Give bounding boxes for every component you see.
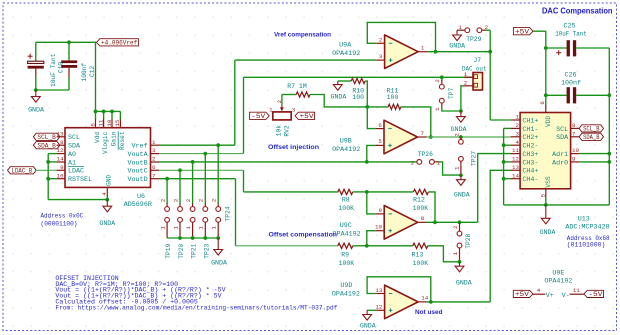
svg-text:11: 11 — [573, 287, 580, 294]
label +5V (top) — [513, 28, 533, 35]
pin 2 U9A — [376, 42, 384, 44]
pin 14 U6 A1 — [57, 161, 65, 163]
label -5V (RV2) — [250, 112, 270, 119]
svg-text:CH4-: CH4- — [522, 176, 538, 184]
svg-text:VoutC: VoutC — [128, 168, 148, 176]
svg-text:CH4+: CH4+ — [522, 168, 538, 176]
svg-text:+5V: +5V — [300, 113, 314, 120]
wire TP ground rail — [167, 237, 218, 239]
svg-text:1: 1 — [172, 226, 179, 230]
U6 top pins tie rail — [96, 110, 121, 112]
label +5V (U9E) — [513, 290, 533, 297]
svg-text:TP24: TP24 — [224, 206, 231, 221]
svg-text:2: 2 — [516, 122, 520, 129]
svg-text:4: 4 — [537, 287, 541, 294]
wire LDAC_B to pin 9 — [36, 169, 57, 171]
svg-text:3: 3 — [379, 53, 383, 60]
svg-text:12: 12 — [375, 304, 382, 311]
wire U6 GND rail — [48, 199, 107, 201]
test point TP23 — [204, 154, 206, 204]
svg-text:V-: V- — [562, 292, 570, 300]
svg-text:100K: 100K — [338, 205, 354, 212]
pin 6 U9B — [376, 128, 384, 130]
svg-text:14: 14 — [421, 295, 428, 302]
pin 6 U13 VDD — [545, 105, 547, 113]
ground GNDA (TP26/27) — [460, 175, 462, 180]
wire U9A out down to CH1+ — [489, 30, 491, 120]
pin 11 U9E — [570, 293, 584, 295]
svg-text:2: 2 — [453, 133, 460, 137]
wire cap bottom rail — [36, 89, 69, 91]
svg-text:1: 1 — [437, 159, 441, 166]
svg-text:SCL: SCL — [68, 134, 80, 142]
svg-text:GNDA: GNDA — [28, 107, 44, 114]
svg-text:2: 2 — [452, 225, 459, 229]
ground GNDA (U6) — [106, 200, 108, 207]
svg-text:R12: R12 — [413, 197, 425, 204]
ground GNDA (U13 VSS) — [545, 205, 547, 218]
svg-text:GNDA: GNDA — [451, 126, 467, 133]
svg-text:1: 1 — [452, 251, 459, 255]
resistor R12 — [367, 191, 414, 193]
LDAC overline — [68, 165, 84, 167]
resistor R13 — [367, 245, 413, 247]
wire R8 to junction — [353, 191, 367, 193]
pin 13 U9D — [376, 293, 384, 295]
svg-text:100K: 100K — [339, 260, 355, 267]
wire Vref row — [159, 144, 235, 146]
resistor R11 — [367, 106, 388, 108]
resistor R8 — [338, 189, 353, 194]
svg-text:LDAC: LDAC — [68, 168, 84, 176]
svg-text:9: 9 — [572, 156, 576, 163]
ground GNDA (TP29) — [456, 30, 458, 35]
svg-text:11: 11 — [97, 119, 104, 126]
svg-text:V+: V+ — [546, 292, 554, 300]
wire pin12 to ground — [367, 309, 376, 311]
svg-text:GNDA: GNDA — [99, 220, 115, 227]
svg-text:-5V: -5V — [251, 113, 265, 120]
pin 1 U9A output — [418, 51, 427, 53]
wire minus-input tie — [504, 127, 511, 129]
label SCL_B — [33, 133, 59, 140]
svg-text:12: 12 — [512, 156, 519, 163]
pin 3 U9A — [376, 59, 384, 61]
svg-text:OPA4192: OPA4192 — [544, 277, 572, 285]
svg-text:R9: R9 — [341, 251, 349, 258]
wire R12 to output — [428, 192, 435, 222]
wire R10 down to node — [365, 81, 367, 107]
svg-text:100K: 100K — [413, 205, 429, 212]
pin 11 U6 top — [103, 111, 105, 119]
U6 body — [65, 128, 151, 188]
label +4.096Vref — [97, 39, 139, 46]
svg-text:C25: C25 — [563, 23, 575, 31]
svg-text:11: 11 — [512, 147, 519, 154]
wire junction down to pin 9 — [367, 192, 376, 214]
ground GNDA (U9D) — [366, 310, 368, 314]
svg-text:CH3+: CH3+ — [522, 151, 538, 159]
svg-text:7: 7 — [421, 130, 425, 137]
svg-text:10uF Tant: 10uF Tant — [50, 53, 57, 87]
svg-text:U9A: U9A — [339, 41, 352, 49]
wire VoutA row — [159, 153, 244, 155]
pin 1 J7 — [464, 76, 473, 78]
ground GNDA (caps) — [35, 90, 37, 97]
wire vref vertical to U6 — [95, 42, 97, 112]
svg-text:5: 5 — [378, 138, 382, 145]
svg-text:(01101000): (01101000) — [567, 242, 606, 249]
wire RV2 wiper up — [281, 95, 283, 105]
svg-text:CH3-: CH3- — [522, 159, 538, 167]
svg-text:CH1+: CH1+ — [522, 117, 538, 125]
ground GNDA (R10) — [337, 81, 339, 85]
wire U9C output — [427, 221, 478, 223]
pin 7 U9B output — [418, 136, 427, 138]
svg-text:1: 1 — [159, 226, 166, 230]
svg-text:SDA: SDA — [556, 134, 569, 142]
wire U9C out up to CH3+ — [478, 154, 511, 223]
wire R11 to U9B output — [401, 107, 431, 137]
svg-text:Vref compensation: Vref compensation — [274, 32, 331, 39]
pin 4 U9E — [533, 293, 545, 295]
wire U9A feedback — [367, 22, 435, 51]
svg-text:100: 100 — [352, 94, 364, 101]
pin 7 U6 VoutD — [151, 178, 160, 180]
svg-text:1: 1 — [211, 226, 218, 230]
svg-text:Adr0: Adr0 — [552, 159, 568, 167]
capacitor C26 — [546, 94, 567, 96]
svg-text:SDA_B: SDA_B — [583, 134, 600, 141]
svg-text:TP29: TP29 — [466, 36, 481, 43]
wire CH1+ horizontal — [490, 119, 510, 121]
svg-text:16: 16 — [57, 172, 64, 179]
resistor R7 — [282, 94, 296, 96]
test point TP28 — [459, 222, 461, 231]
pin 13 U13 CH4+ — [511, 169, 520, 171]
wire VoutD to R9 — [235, 179, 237, 246]
svg-text:GNDA: GNDA — [330, 94, 346, 101]
capacitor C10 — [35, 42, 37, 61]
svg-text:8: 8 — [572, 122, 576, 129]
svg-text:15: 15 — [114, 119, 121, 126]
wire Vref up to U9A — [234, 60, 236, 145]
pin 1 U6 Vref — [151, 144, 160, 146]
test point TP24 — [217, 145, 219, 204]
pin 4 U13 CH2- — [511, 144, 520, 146]
svg-text:9: 9 — [379, 207, 383, 214]
svg-text:SDA: SDA — [68, 143, 81, 151]
test point TP27 — [460, 137, 462, 139]
pin 7 U13 SDA — [571, 136, 580, 138]
pin 10 U9C — [376, 230, 384, 232]
pin 14 U13 CH4- — [511, 178, 520, 180]
U13 body — [520, 113, 571, 189]
svg-text:CH2-: CH2- — [522, 143, 538, 151]
svg-text:3: 3 — [152, 147, 156, 154]
svg-text:(00001100): (00001100) — [41, 221, 78, 228]
wire VoutC row — [159, 169, 244, 171]
svg-text:VoutD: VoutD — [128, 176, 148, 184]
wire TP7 pin1 to gnd node — [442, 107, 461, 111]
label SDA_B — [33, 142, 59, 149]
svg-text:2: 2 — [411, 159, 415, 166]
svg-text:Vdd: Vdd — [94, 132, 101, 143]
pin 8 U13 SCL — [571, 127, 580, 129]
svg-text:Address 0x0C: Address 0x0C — [41, 213, 84, 220]
svg-text:CH1-: CH1- — [522, 126, 538, 134]
svg-text:1: 1 — [464, 71, 468, 78]
wire R7 to node — [310, 95, 367, 107]
label SCL_B (right) — [579, 125, 603, 132]
svg-text:13: 13 — [512, 164, 519, 171]
svg-text:1: 1 — [516, 114, 520, 121]
svg-text:2: 2 — [172, 198, 179, 202]
svg-text:OPA4192: OPA4192 — [332, 50, 360, 58]
svg-text:2: 2 — [152, 156, 156, 163]
test point TP29 — [465, 28, 470, 33]
svg-text:6: 6 — [539, 101, 546, 105]
pin 9 U9C — [376, 213, 384, 215]
svg-text:10uF Tant: 10uF Tant — [555, 31, 587, 39]
svg-text:100K: 100K — [413, 260, 429, 267]
svg-text:Reset: Reset — [119, 131, 126, 150]
svg-text:OPA4192: OPA4192 — [332, 291, 360, 299]
svg-text:GNDA: GNDA — [540, 229, 556, 236]
svg-text:SCL_B: SCL_B — [37, 134, 56, 141]
pin 12 U6 A0 — [57, 153, 65, 155]
svg-text:U13: U13 — [578, 215, 590, 223]
pin 9 U13 Adr0 — [571, 161, 580, 163]
test point TP20 — [179, 170, 181, 204]
svg-text:7: 7 — [572, 130, 576, 137]
svg-text:U6: U6 — [137, 193, 145, 201]
pin 14 U9D output — [418, 301, 426, 303]
ground GNDA (TP28) — [459, 262, 461, 266]
wire DAC-out rail — [244, 76, 474, 78]
svg-text:+4.096Vref: +4.096Vref — [101, 40, 138, 47]
svg-text:Not used: Not used — [415, 309, 443, 316]
svg-text:GNDA: GNDA — [454, 191, 470, 198]
svg-text:1: 1 — [421, 45, 425, 52]
pin 2 J7 — [464, 85, 473, 87]
svg-text:3: 3 — [292, 107, 296, 114]
pin 3 U6 VoutA — [151, 153, 160, 155]
pin 10 U6 top — [111, 111, 113, 119]
svg-text:1: 1 — [269, 107, 273, 114]
wire Adr1 — [579, 153, 609, 155]
pin 3 U13 CH2+ — [511, 136, 520, 138]
svg-text:100: 100 — [387, 94, 399, 101]
op-amp U9D — [385, 285, 419, 319]
svg-text:10k: 10k — [276, 125, 283, 136]
wire U9D feedback — [367, 277, 431, 302]
svg-text:8: 8 — [60, 139, 64, 146]
svg-text:9: 9 — [60, 164, 64, 171]
svg-text:Offset compensation: Offset compensation — [269, 232, 338, 239]
svg-text:1: 1 — [198, 226, 205, 230]
wire U9D out to CH4+ — [427, 301, 491, 303]
pin 10 U13 Adr1 — [571, 153, 580, 155]
svg-text:U9E: U9E — [552, 270, 564, 278]
wire pin10 down to R9 row — [367, 231, 376, 246]
svg-text:1: 1 — [185, 226, 192, 230]
pin 5 U6 top — [95, 111, 97, 119]
svg-text:Gain: Gain — [111, 131, 118, 146]
svg-text:C12: C12 — [89, 66, 96, 77]
svg-text:GNDA: GNDA — [456, 280, 472, 287]
svg-text:2: 2 — [434, 79, 441, 83]
op-amp U9A — [385, 35, 419, 69]
svg-text:RV2: RV2 — [284, 125, 291, 136]
svg-text:U9B: U9B — [340, 138, 352, 146]
pin 5 U13 VSS — [545, 189, 547, 197]
ground GNDA (TP rail) — [217, 238, 219, 250]
svg-text:GNDA: GNDA — [360, 322, 376, 329]
label -5V (U9E) — [584, 290, 604, 297]
svg-text:6: 6 — [378, 122, 382, 129]
test point TP19 — [166, 179, 168, 204]
svg-text:TP21: TP21 — [191, 243, 198, 258]
svg-text:14: 14 — [57, 156, 64, 163]
pin 12 U9D — [376, 309, 384, 311]
wire right vertical rail — [608, 48, 610, 205]
op-amp U9C — [384, 206, 418, 240]
svg-text:2: 2 — [464, 79, 468, 86]
potentiometer RV2 — [273, 112, 291, 120]
op-amp U9B — [384, 120, 418, 154]
svg-text:Vref: Vref — [132, 143, 148, 151]
label LDAC_B — [8, 167, 37, 174]
svg-text:LDAC_B: LDAC_B — [12, 168, 33, 175]
svg-text:-5V: -5V — [588, 291, 602, 298]
svg-text:SCL: SCL — [556, 126, 568, 134]
svg-text:R7 1M: R7 1M — [287, 83, 307, 90]
svg-text:7: 7 — [152, 172, 156, 179]
pin 16 U6 RSTSEL — [57, 178, 65, 180]
pin 8 U6 SDA — [57, 144, 65, 146]
svg-text:1: 1 — [434, 107, 441, 111]
svg-text:TP20: TP20 — [178, 243, 185, 258]
wire R9 to junction — [353, 245, 367, 247]
pin 11 U13 CH3+ — [511, 153, 520, 155]
svg-text:10: 10 — [572, 147, 579, 154]
pin 6 U6 VoutC — [151, 169, 160, 171]
svg-text:+5V: +5V — [515, 291, 529, 298]
svg-text:TP28: TP28 — [465, 233, 472, 248]
svg-text:100nf: 100nf — [561, 79, 581, 87]
svg-text:3: 3 — [516, 130, 520, 137]
svg-text:GNDA: GNDA — [211, 259, 227, 266]
svg-text:R13: R13 — [412, 251, 424, 258]
svg-text:2: 2 — [159, 198, 166, 202]
svg-text:TP7: TP7 — [448, 87, 455, 99]
wire VoutB row — [159, 161, 417, 163]
svg-text:TP23: TP23 — [203, 243, 210, 258]
svg-text:8: 8 — [421, 215, 425, 222]
pin 4 U6 GND — [106, 187, 108, 196]
svg-text:GND: GND — [105, 175, 112, 186]
svg-text:CH2+: CH2+ — [522, 134, 538, 142]
svg-text:U9D: U9D — [340, 282, 352, 290]
pin 2 U6 VoutB — [151, 161, 160, 163]
node vref-C12 junction — [67, 40, 71, 44]
wire pin5 to VoutB row — [367, 145, 376, 162]
svg-text:J7: J7 — [474, 57, 482, 64]
svg-text:1: 1 — [453, 166, 460, 170]
svg-text:Offset injection: Offset injection — [268, 144, 319, 151]
svg-text:ADC:MCP3428: ADC:MCP3428 — [565, 224, 609, 232]
svg-text:2: 2 — [185, 198, 192, 202]
svg-text:10: 10 — [106, 119, 113, 126]
svg-text:5: 5 — [89, 123, 96, 127]
svg-text:100nf: 100nf — [81, 63, 88, 82]
wire ground rail under U13 — [504, 204, 610, 206]
wire node down to pin 6 — [367, 107, 375, 129]
svg-text:4: 4 — [516, 139, 520, 146]
pin 5 U9B — [376, 144, 384, 146]
label SDA_B (right) — [579, 133, 603, 140]
wire VoutC to R8 — [243, 170, 245, 192]
wire TP26 pin1 to ground node — [434, 161, 438, 163]
pin 2 U13 CH1- — [511, 127, 520, 129]
svg-text:14: 14 — [512, 172, 519, 179]
svg-text:4: 4 — [101, 192, 108, 196]
wire Adr0 — [579, 161, 609, 163]
wire U9B out to CH2+ — [427, 136, 511, 138]
svg-text:5: 5 — [539, 193, 546, 197]
svg-text:GNDA: GNDA — [449, 42, 465, 49]
wire R13 to TP28 gnd node — [428, 246, 460, 262]
resistor R10 — [338, 80, 351, 82]
svg-text:A0: A0 — [68, 151, 76, 159]
resistor R9 — [338, 243, 353, 248]
svg-text:R8: R8 — [342, 197, 350, 204]
svg-text:10: 10 — [375, 224, 382, 231]
svg-text:RSTSEL: RSTSEL — [68, 176, 92, 184]
svg-text:AD5696R: AD5696R — [124, 201, 152, 209]
svg-text:2: 2 — [211, 198, 218, 202]
pin 15 U6 top — [119, 111, 121, 119]
svg-text:VSS: VSS — [545, 176, 552, 187]
svg-text:From: https://www.analog.com/m: From: https://www.analog.com/media/en/tr… — [55, 305, 337, 312]
pin 9 U6 LDAC — [57, 169, 65, 171]
pin 8 U9C output — [418, 221, 427, 223]
svg-text:2: 2 — [379, 37, 383, 44]
test point TP21 — [192, 162, 194, 204]
label +5V (RV2) — [295, 112, 315, 119]
svg-text:TP19: TP19 — [165, 243, 172, 258]
wire A0/A1/RSTSEL tie — [48, 153, 57, 155]
svg-text:DAC Compensation: DAC Compensation — [542, 7, 613, 16]
svg-text:13: 13 — [375, 287, 382, 294]
wire vref top rail — [36, 41, 96, 43]
pin 13 U6 SCL — [57, 136, 65, 138]
ground GNDA (J7/TP7) — [460, 111, 462, 117]
capacitor C12 — [68, 42, 70, 60]
svg-text:6: 6 — [152, 164, 156, 171]
svg-text:Adr1: Adr1 — [552, 151, 568, 159]
svg-text:VDD: VDD — [545, 116, 552, 127]
svg-text:U9C: U9C — [340, 222, 352, 230]
capacitor C25 — [546, 47, 567, 49]
svg-text:+5V: +5V — [515, 29, 529, 36]
pin 1 U13 CH1+ — [511, 119, 520, 121]
svg-text:SDA_B: SDA_B — [37, 143, 56, 150]
wire VoutA up to DAC-out rail — [243, 77, 245, 153]
wire VoutD row — [159, 178, 236, 180]
svg-text:SCL_B: SCL_B — [583, 126, 600, 133]
